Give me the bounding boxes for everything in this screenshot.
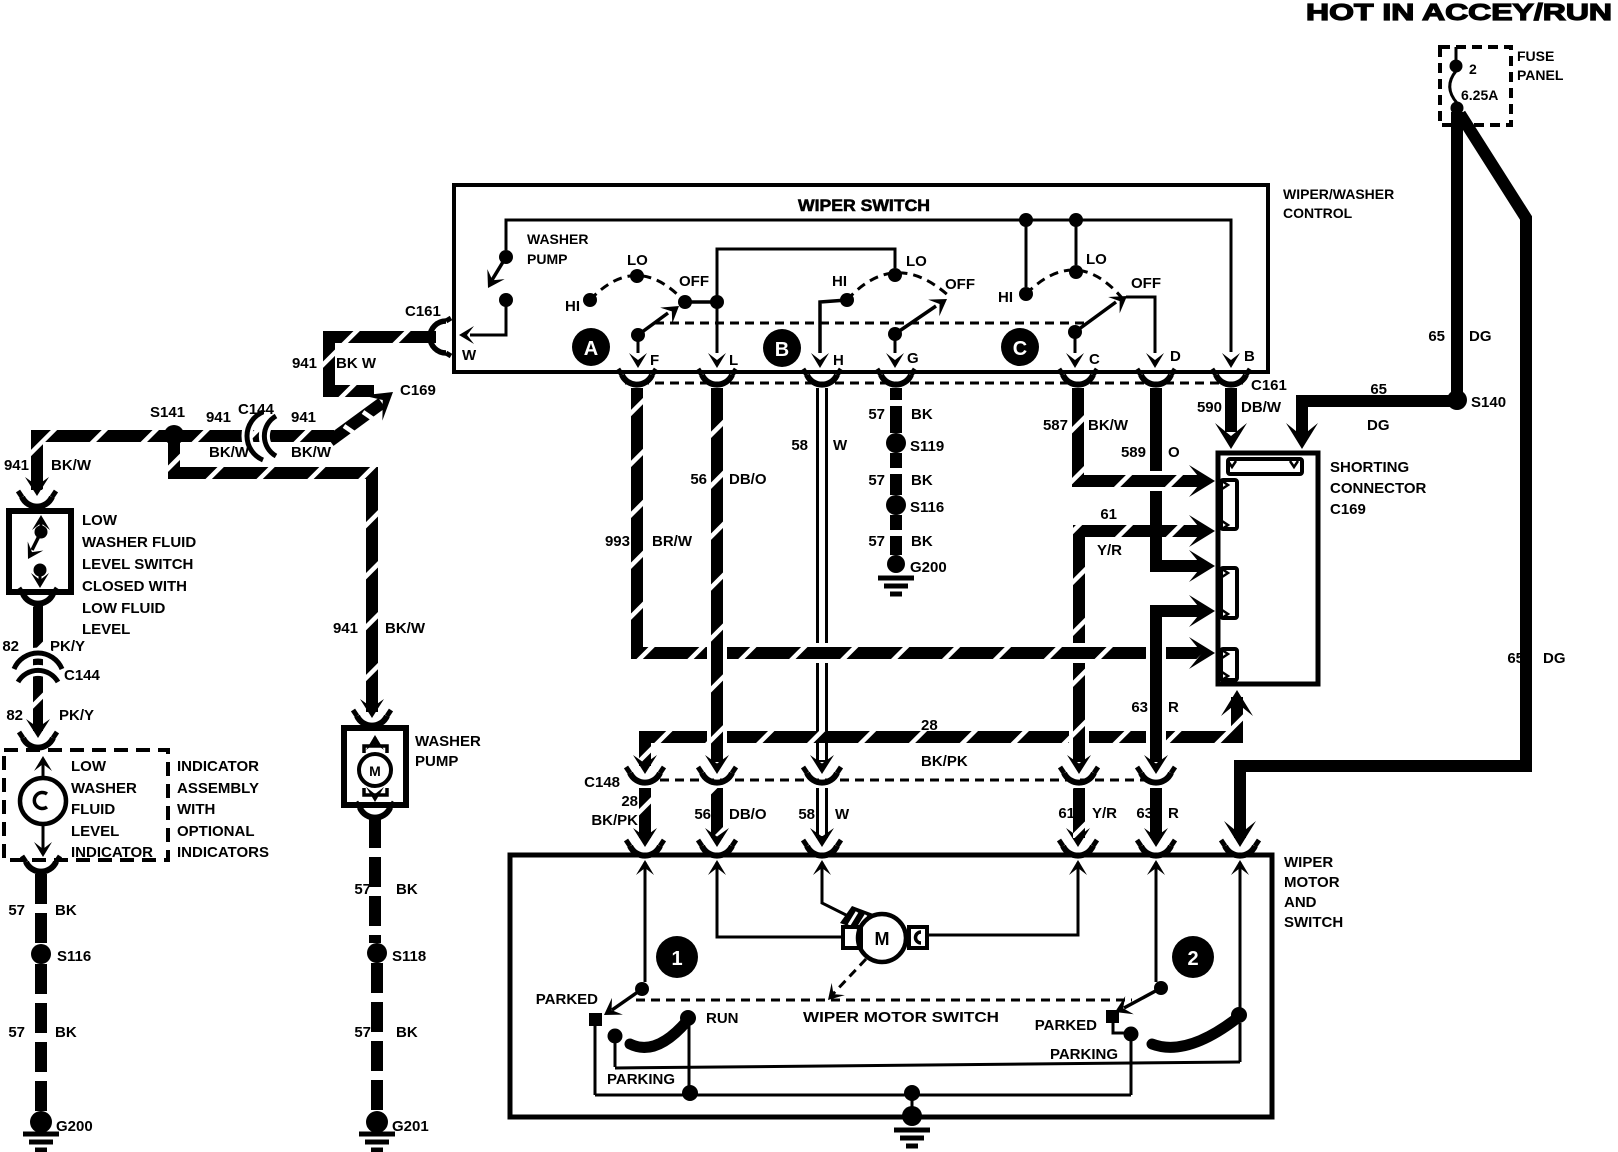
svg-text:HI: HI bbox=[565, 298, 580, 315]
ground G200 bbox=[30, 1111, 52, 1133]
svg-text:56: 56 bbox=[690, 471, 707, 488]
switch C rotary bbox=[1019, 213, 1033, 227]
wire 941 BK/W S141 to fluid switch bbox=[37, 436, 174, 490]
svg-text:WASHER: WASHER bbox=[527, 231, 588, 247]
wire: terminal 58 to motor brush bbox=[822, 862, 858, 921]
switch 2 bbox=[1154, 981, 1168, 995]
wiper motor M bbox=[858, 914, 906, 962]
svg-text:WASHER: WASHER bbox=[71, 780, 137, 797]
svg-text:S116: S116 bbox=[910, 499, 944, 516]
svg-text:PK/Y: PK/Y bbox=[50, 638, 85, 655]
svg-text:28: 28 bbox=[921, 717, 938, 734]
wire 587 BK/W C terminal to C169 bbox=[1078, 388, 1203, 481]
svg-text:BR/W: BR/W bbox=[652, 533, 693, 550]
fuse F2 6.25A bbox=[1450, 47, 1457, 103]
terminal G bbox=[894, 334, 897, 353]
wire stub 61 below C148 bbox=[1073, 788, 1085, 838]
svg-text:PK/Y: PK/Y bbox=[59, 707, 94, 724]
svg-text:BK/W: BK/W bbox=[291, 444, 332, 461]
svg-text:PANEL: PANEL bbox=[1517, 67, 1564, 83]
connector C161 left bracket bbox=[430, 318, 451, 356]
svg-text:S116: S116 bbox=[57, 948, 91, 965]
terminal B arrow bbox=[1222, 353, 1240, 368]
svg-text:65: 65 bbox=[1507, 650, 1524, 667]
svg-text:DB/O: DB/O bbox=[729, 471, 767, 488]
svg-text:A: A bbox=[584, 338, 598, 360]
svg-text:941: 941 bbox=[206, 409, 231, 426]
terminal F bbox=[637, 335, 640, 353]
svg-text:PARKING: PARKING bbox=[1050, 1046, 1118, 1063]
svg-text:BK/W: BK/W bbox=[209, 444, 250, 461]
svg-text:DG: DG bbox=[1367, 417, 1390, 434]
wire 941 BK/W S141 to washer pump bbox=[174, 443, 372, 712]
svg-text:O: O bbox=[1168, 444, 1180, 461]
svg-text:1: 1 bbox=[671, 948, 682, 970]
svg-text:58: 58 bbox=[791, 437, 808, 454]
svg-text:H: H bbox=[833, 352, 844, 369]
svg-text:G: G bbox=[907, 350, 919, 367]
run arc 2 bbox=[1152, 1019, 1236, 1047]
svg-text:61: 61 bbox=[1100, 506, 1117, 523]
wire 28 BK/PK C169 bottom to C148 bbox=[1227, 694, 1247, 731]
wire 65 DG fuse to S140 bbox=[1451, 112, 1463, 394]
svg-text:BK W: BK W bbox=[336, 355, 377, 372]
svg-text:LOW FLUID: LOW FLUID bbox=[82, 600, 165, 617]
splice S116 bbox=[886, 495, 906, 515]
svg-text:S118: S118 bbox=[392, 948, 426, 965]
svg-text:RUN: RUN bbox=[706, 1010, 739, 1027]
svg-text:C148: C148 bbox=[584, 774, 620, 791]
svg-text:R: R bbox=[1168, 699, 1179, 716]
wire 65 DG S140 to C169 top bbox=[1302, 401, 1452, 437]
svg-text:BK: BK bbox=[396, 881, 418, 898]
svg-text:57: 57 bbox=[868, 406, 885, 423]
low washer fluid level indicator bulb bbox=[42, 760, 45, 850]
wire: OFF-A to L junction bbox=[685, 300, 717, 304]
circle A bbox=[572, 328, 610, 366]
svg-text:941: 941 bbox=[4, 457, 29, 474]
svg-text:57: 57 bbox=[8, 902, 25, 919]
C161 row cups bbox=[618, 369, 656, 385]
svg-text:DG: DG bbox=[1543, 650, 1566, 667]
svg-text:G200: G200 bbox=[910, 559, 947, 576]
indicator assembly dashed box bbox=[19, 732, 57, 748]
svg-text:M: M bbox=[875, 929, 890, 949]
switch 1 bbox=[635, 982, 649, 996]
svg-text:993: 993 bbox=[605, 533, 630, 550]
svg-text:C: C bbox=[1013, 338, 1027, 360]
wire 82 PK/Y bbox=[33, 606, 43, 731]
wire: run 2 drop bbox=[1239, 1023, 1242, 1062]
wire 61 Y/R lower segment bbox=[1069, 663, 1089, 762]
svg-text:S141: S141 bbox=[150, 404, 185, 421]
svg-text:WASHER: WASHER bbox=[415, 733, 481, 750]
switch arm A bbox=[638, 313, 668, 335]
svg-text:2: 2 bbox=[1469, 61, 1477, 77]
low washer fluid level switch bbox=[18, 491, 56, 507]
connector C144 lower bbox=[14, 653, 62, 682]
fuse panel box bbox=[1440, 47, 1511, 125]
ground stub motor box bbox=[911, 1093, 914, 1112]
svg-text:S140: S140 bbox=[1471, 394, 1506, 411]
svg-text:B: B bbox=[1244, 348, 1255, 365]
wire 993 BR/W F terminal to C169 bbox=[637, 388, 1203, 653]
svg-text:C169: C169 bbox=[1330, 501, 1366, 518]
wire: run/parking link line bbox=[615, 1062, 1240, 1068]
terminal L bbox=[716, 302, 719, 353]
svg-text:DB/O: DB/O bbox=[729, 806, 767, 823]
svg-text:C144: C144 bbox=[64, 667, 101, 684]
circle C bbox=[1001, 328, 1039, 366]
circle 2 bbox=[1172, 936, 1214, 978]
wire 589 O D terminal to C169 bbox=[1156, 388, 1203, 566]
svg-text:LEVEL: LEVEL bbox=[82, 621, 130, 638]
svg-text:BK: BK bbox=[55, 902, 77, 919]
svg-text:F: F bbox=[650, 352, 659, 369]
wire: internal feed line bbox=[506, 220, 1231, 352]
wire: parking 1 drop bbox=[614, 1043, 617, 1067]
wire 57 BK S118 to G201 bbox=[371, 963, 383, 1112]
wire stub 28 below C148 bbox=[639, 788, 651, 838]
wire: terminal 63 to switch 2 bbox=[1155, 862, 1158, 982]
wire 57 BK G terminal to G200 (middle column) bbox=[890, 388, 902, 555]
svg-text:LOW: LOW bbox=[71, 758, 107, 775]
wire 65 DG fuse to wiper motor (right side) bbox=[1240, 114, 1526, 838]
svg-text:587: 587 bbox=[1043, 417, 1068, 434]
wire: L junction riser to LO-B bbox=[717, 249, 895, 302]
wire 590 DB/W B terminal to C169 bbox=[1225, 388, 1237, 432]
svg-text:C144: C144 bbox=[238, 401, 275, 418]
wire 63 R C169 to motor box bbox=[1146, 613, 1166, 838]
svg-text:R: R bbox=[1168, 805, 1179, 822]
svg-text:57: 57 bbox=[868, 533, 885, 550]
svg-text:BK: BK bbox=[911, 406, 933, 423]
svg-text:HI: HI bbox=[998, 289, 1013, 306]
svg-text:G200: G200 bbox=[56, 1118, 93, 1135]
connector C144 upper bbox=[247, 412, 276, 460]
svg-text:HI: HI bbox=[832, 273, 847, 290]
svg-text:BK/PK: BK/PK bbox=[921, 753, 968, 770]
svg-text:61: 61 bbox=[1058, 805, 1075, 822]
svg-text:6.25A: 6.25A bbox=[1461, 87, 1498, 103]
svg-text:65: 65 bbox=[1428, 328, 1445, 345]
svg-text:LEVEL: LEVEL bbox=[71, 823, 119, 840]
svg-text:WIPER: WIPER bbox=[1284, 854, 1333, 871]
switch arm C bbox=[1075, 302, 1116, 332]
svg-text:Y/R: Y/R bbox=[1092, 805, 1117, 822]
svg-text:INDICATOR: INDICATOR bbox=[71, 844, 153, 861]
svg-text:WASHER FLUID: WASHER FLUID bbox=[82, 534, 196, 551]
svg-text:C169: C169 bbox=[400, 382, 436, 399]
svg-text:INDICATORS: INDICATORS bbox=[177, 844, 269, 861]
svg-text:56: 56 bbox=[694, 806, 711, 823]
svg-text:C: C bbox=[1089, 351, 1100, 368]
wire 941 BK/W C161-W to C169 inline bbox=[329, 337, 436, 391]
svg-text:57: 57 bbox=[8, 1024, 25, 1041]
svg-text:589: 589 bbox=[1121, 444, 1146, 461]
svg-text:PUMP: PUMP bbox=[527, 251, 567, 267]
svg-text:AND: AND bbox=[1284, 894, 1317, 911]
svg-text:B: B bbox=[775, 339, 789, 361]
svg-text:590: 590 bbox=[1197, 399, 1222, 416]
ground G201 bbox=[366, 1111, 388, 1133]
wire 58 W arrows bbox=[810, 755, 834, 774]
svg-text:941: 941 bbox=[292, 355, 317, 372]
svg-text:DB/W: DB/W bbox=[1241, 399, 1282, 416]
wire 58 W (white) H terminal to motor box bbox=[816, 388, 828, 838]
wire 56 DB/O L terminal to motor box bbox=[707, 388, 727, 838]
svg-text:BK/W: BK/W bbox=[51, 457, 92, 474]
svg-text:65: 65 bbox=[1370, 381, 1387, 398]
svg-text:MOTOR: MOTOR bbox=[1284, 874, 1340, 891]
terminal C bbox=[1074, 332, 1077, 353]
svg-text:CLOSED WITH: CLOSED WITH bbox=[82, 578, 187, 595]
wiper motor switch dashed links bbox=[833, 959, 866, 994]
svg-text:941: 941 bbox=[333, 620, 358, 637]
svg-text:WIPER MOTOR SWITCH: WIPER MOTOR SWITCH bbox=[803, 1009, 999, 1026]
svg-text:WIPER/WASHER: WIPER/WASHER bbox=[1283, 186, 1394, 202]
wire: terminal 65 to RUN 2 bbox=[1239, 862, 1242, 1012]
svg-text:CONTROL: CONTROL bbox=[1283, 205, 1353, 221]
splice S118 bbox=[367, 943, 387, 963]
wire: parking 2 to bus bbox=[1130, 1041, 1133, 1095]
wire: run 1 drop to bus bbox=[688, 1025, 691, 1092]
svg-text:OFF: OFF bbox=[945, 276, 975, 293]
wire 941 BK/W S141 diagonal to C169 bbox=[330, 403, 382, 441]
motor brush bbox=[840, 906, 876, 932]
svg-text:63: 63 bbox=[1131, 699, 1148, 716]
svg-text:L: L bbox=[729, 352, 738, 369]
svg-text:CONNECTOR: CONNECTOR bbox=[1330, 480, 1427, 497]
svg-text:HOT IN ACCEY/RUN: HOT IN ACCEY/RUN bbox=[1306, 0, 1612, 25]
svg-text:WITH: WITH bbox=[177, 801, 215, 818]
splice S119 bbox=[886, 433, 906, 453]
svg-text:57: 57 bbox=[354, 1024, 371, 1041]
svg-text:FUSE: FUSE bbox=[1517, 48, 1554, 64]
svg-text:BK: BK bbox=[911, 533, 933, 550]
splice S140 bbox=[1447, 390, 1467, 410]
wire 61 Y/R C169 to C148 upper bbox=[1079, 531, 1203, 645]
svg-text:W: W bbox=[462, 347, 477, 364]
svg-text:58: 58 bbox=[798, 806, 815, 823]
svg-text:28: 28 bbox=[621, 793, 638, 810]
box entry cups on top edge bbox=[626, 840, 664, 856]
svg-text:Y/R: Y/R bbox=[1097, 542, 1122, 559]
wire: HI-B to H terminal bbox=[820, 300, 847, 353]
wire: terminal 28 to switch 1 bbox=[644, 862, 647, 982]
svg-text:OPTIONAL: OPTIONAL bbox=[177, 823, 255, 840]
splice S116 (left) bbox=[31, 944, 51, 964]
svg-text:G201: G201 bbox=[392, 1118, 429, 1135]
svg-text:OFF: OFF bbox=[679, 273, 709, 290]
svg-text:M: M bbox=[369, 763, 381, 779]
svg-text:LO: LO bbox=[906, 253, 927, 270]
svg-text:82: 82 bbox=[6, 707, 23, 724]
svg-text:PARKED: PARKED bbox=[1035, 1017, 1097, 1034]
svg-text:63: 63 bbox=[1136, 805, 1153, 822]
circle B bbox=[763, 329, 801, 367]
wire: washer pump switch to W terminal bbox=[470, 300, 506, 335]
svg-text:INDICATOR: INDICATOR bbox=[177, 758, 259, 775]
svg-text:D: D bbox=[1170, 348, 1181, 365]
svg-text:LO: LO bbox=[1086, 251, 1107, 268]
svg-text:BK/W: BK/W bbox=[385, 620, 426, 637]
switch arm B bbox=[895, 306, 936, 334]
svg-text:PUMP: PUMP bbox=[415, 753, 458, 770]
mechanical link dashed bbox=[655, 322, 1085, 325]
wire: terminal 61 to motor right bbox=[928, 862, 1078, 935]
svg-text:941: 941 bbox=[291, 409, 316, 426]
wire 57 BK to S116 bbox=[22, 856, 60, 872]
ground bus bbox=[595, 1094, 1131, 1097]
wire 57 BK pump to S118 bbox=[369, 818, 381, 943]
svg-text:57: 57 bbox=[868, 472, 885, 489]
svg-text:OFF: OFF bbox=[1131, 275, 1161, 292]
svg-text:PARKED: PARKED bbox=[536, 991, 598, 1008]
svg-text:57: 57 bbox=[354, 881, 371, 898]
svg-text:WIPER SWITCH: WIPER SWITCH bbox=[798, 196, 930, 215]
svg-text:LOW: LOW bbox=[82, 512, 118, 529]
svg-text:BK: BK bbox=[911, 472, 933, 489]
svg-text:BK: BK bbox=[55, 1024, 77, 1041]
splice S141 bbox=[164, 425, 184, 445]
svg-text:FLUID: FLUID bbox=[71, 801, 115, 818]
wire: parked 1 to ground bus bbox=[594, 1025, 597, 1095]
wire: terminal 56 to motor left bbox=[717, 862, 843, 937]
svg-text:W: W bbox=[833, 437, 848, 454]
svg-text:LO: LO bbox=[627, 252, 648, 269]
svg-text:SHORTING: SHORTING bbox=[1330, 459, 1409, 476]
svg-text:DG: DG bbox=[1469, 328, 1492, 345]
svg-text:C161: C161 bbox=[405, 303, 441, 320]
run arc 1 bbox=[630, 1021, 687, 1047]
wire 57 BK to G200 bbox=[35, 964, 47, 1112]
svg-text:BK/PK: BK/PK bbox=[591, 812, 638, 829]
circle 1 bbox=[656, 936, 698, 978]
svg-text:C161: C161 bbox=[1251, 377, 1287, 394]
svg-text:BK/W: BK/W bbox=[1088, 417, 1129, 434]
svg-text:BK: BK bbox=[396, 1024, 418, 1041]
svg-text:ASSEMBLY: ASSEMBLY bbox=[177, 780, 259, 797]
svg-text:SWITCH: SWITCH bbox=[1284, 914, 1343, 931]
svg-text:W: W bbox=[835, 806, 850, 823]
svg-text:PARKING: PARKING bbox=[607, 1071, 675, 1088]
svg-text:2: 2 bbox=[1187, 948, 1198, 970]
wire: OFF-C to D terminal bbox=[1126, 297, 1155, 353]
svg-text:82: 82 bbox=[2, 638, 19, 655]
entry arrows inside box bbox=[636, 860, 654, 875]
svg-text:S119: S119 bbox=[910, 438, 944, 455]
ground G200 (middle) bbox=[887, 555, 905, 573]
svg-text:LEVEL SWITCH: LEVEL SWITCH bbox=[82, 556, 193, 573]
